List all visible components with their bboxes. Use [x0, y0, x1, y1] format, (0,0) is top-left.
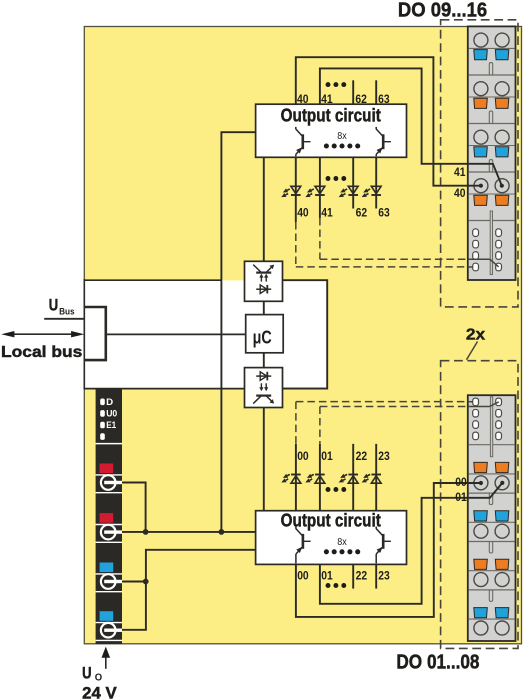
svg-text:63: 63 — [378, 94, 390, 106]
svg-text:DO 01...08: DO 01...08 — [396, 650, 479, 673]
svg-text:U: U — [49, 296, 58, 315]
svg-text:40: 40 — [297, 208, 309, 220]
svg-text:DO 09...16: DO 09...16 — [398, 0, 487, 22]
svg-text:Local bus: Local bus — [1, 344, 82, 361]
svg-text:01: 01 — [455, 492, 467, 504]
svg-text:23: 23 — [378, 570, 390, 582]
svg-text:D: D — [106, 397, 113, 407]
svg-text:Bus: Bus — [59, 307, 75, 317]
svg-text:23: 23 — [378, 451, 390, 463]
svg-text:41: 41 — [454, 167, 466, 179]
svg-text:62: 62 — [356, 208, 368, 220]
svg-text:00: 00 — [297, 570, 309, 582]
svg-text:01: 01 — [321, 570, 333, 582]
svg-text:62: 62 — [355, 94, 367, 106]
svg-text:63: 63 — [378, 208, 390, 220]
svg-text:22: 22 — [356, 451, 368, 463]
svg-text:40: 40 — [297, 94, 309, 106]
svg-text:O: O — [95, 673, 103, 684]
svg-text:μC: μC — [253, 327, 272, 347]
svg-text:U: U — [82, 663, 91, 682]
svg-text:41: 41 — [321, 94, 333, 106]
svg-text:E1: E1 — [106, 420, 116, 430]
svg-text:01: 01 — [321, 451, 333, 463]
svg-text:U0: U0 — [106, 409, 117, 419]
svg-text:2x: 2x — [466, 327, 486, 344]
svg-text:00: 00 — [297, 451, 309, 463]
svg-text:24 V: 24 V — [82, 683, 117, 700]
svg-text:41: 41 — [321, 208, 333, 220]
svg-text:22: 22 — [356, 570, 368, 582]
svg-text:40: 40 — [454, 188, 466, 200]
svg-text:8x: 8x — [337, 130, 347, 142]
svg-text:Output circuit: Output circuit — [281, 509, 381, 530]
svg-text:Output circuit: Output circuit — [281, 105, 381, 126]
svg-text:8x: 8x — [337, 536, 347, 548]
svg-text:00: 00 — [455, 477, 467, 489]
